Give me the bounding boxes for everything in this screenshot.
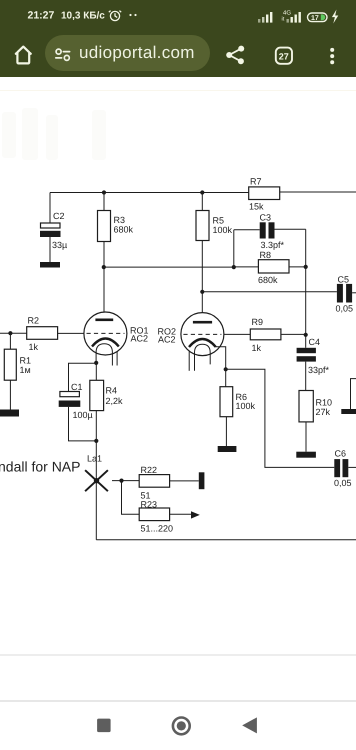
svg-text:R23: R23 xyxy=(141,500,158,510)
capacitor C2 xyxy=(40,211,67,262)
resistor R7 xyxy=(249,177,280,212)
svg-text:C5: C5 xyxy=(338,275,350,285)
node dot top rail R3 xyxy=(102,190,106,194)
node dot R8 right xyxy=(304,265,308,269)
svg-text:La1: La1 xyxy=(87,454,102,464)
svg-text:C2: C2 xyxy=(53,211,65,221)
node dot cathode network bottom xyxy=(94,439,98,443)
faint page artifact line xyxy=(0,90,356,91)
bottom sheet strip xyxy=(0,654,356,702)
nav back triangle xyxy=(242,717,257,733)
wire C3 right leg xyxy=(305,229,307,267)
capacitor C3 xyxy=(234,213,306,251)
node dot R22 R23 tap xyxy=(119,479,123,483)
wire feedback vertical xyxy=(305,267,307,348)
svg-text:C6: C6 xyxy=(335,449,347,459)
battery 17% xyxy=(308,13,328,22)
svg-text:C3: C3 xyxy=(260,213,272,223)
svg-text:100µ: 100µ xyxy=(73,410,93,420)
capacitor C4 xyxy=(297,337,330,391)
svg-text:3.3pf*: 3.3pf* xyxy=(261,240,285,250)
menu kebab xyxy=(330,48,334,64)
wire C2 drop xyxy=(49,193,51,224)
svg-text:51...220: 51...220 xyxy=(141,524,174,534)
svg-text:R10: R10 xyxy=(316,398,333,408)
signal bars 1 xyxy=(258,12,272,23)
svg-text:C1: C1 xyxy=(71,382,83,392)
node dot C3 R8 left xyxy=(232,265,236,269)
ground bar below R1 xyxy=(0,410,19,417)
svg-text:AC2: AC2 xyxy=(131,334,149,344)
wire output to C5 xyxy=(202,291,337,293)
wire top rail right xyxy=(280,191,356,193)
svg-text:C4: C4 xyxy=(309,337,321,347)
svg-text:AC2: AC2 xyxy=(158,335,176,345)
resistor R1 xyxy=(4,333,31,409)
capacitor C6 xyxy=(334,449,356,489)
browser header bar xyxy=(0,0,356,77)
resistor R5 xyxy=(196,193,233,322)
wire top rail left xyxy=(50,192,249,194)
ground terminal below C2 xyxy=(40,262,60,268)
url pill xyxy=(45,35,210,71)
resistor R4 xyxy=(90,363,123,441)
wire cathode2 to C6 xyxy=(226,369,335,467)
svg-text:1k: 1k xyxy=(252,343,262,353)
svg-text:680k: 680k xyxy=(258,275,278,285)
svg-text:R3: R3 xyxy=(114,215,126,225)
node dot anode R3 xyxy=(102,265,106,269)
faint watermark ghost xyxy=(2,108,106,160)
charging bolt xyxy=(332,10,338,24)
site settings (tune) icon xyxy=(56,49,70,60)
android nav bar xyxy=(0,700,356,750)
two-dot notification xyxy=(129,14,131,16)
svg-text:33pf*: 33pf* xyxy=(308,365,330,375)
svg-text:100k: 100k xyxy=(236,401,256,411)
nav recents square xyxy=(97,719,111,733)
ground bar right edge xyxy=(341,409,356,414)
wire lamp to R22 xyxy=(112,480,139,482)
wire grid feed left xyxy=(0,332,27,334)
signal bars 2 xyxy=(287,12,301,23)
wire bottom rail xyxy=(96,539,356,541)
svg-text:R2: R2 xyxy=(28,316,40,326)
wire anode coupling xyxy=(104,266,234,268)
resistor R6 xyxy=(220,369,256,446)
svg-text:100k: 100k xyxy=(213,225,233,235)
lamp La1 xyxy=(85,454,108,492)
alarm clock icon xyxy=(109,11,121,21)
home button icon xyxy=(16,47,31,64)
node dot R9 right xyxy=(304,333,308,337)
node dot R1 tap xyxy=(8,331,12,335)
svg-text:R7: R7 xyxy=(250,177,262,187)
svg-text:15k: 15k xyxy=(249,202,264,212)
svg-text:33µ: 33µ xyxy=(52,240,67,250)
svg-text:R4: R4 xyxy=(106,386,118,396)
ground bar below R10 xyxy=(296,452,316,458)
wire down to lamp xyxy=(95,441,97,540)
svg-text:R1: R1 xyxy=(20,356,32,366)
ground bar below R6 xyxy=(218,446,237,452)
node dot output xyxy=(200,290,204,294)
svg-text:0,05: 0,05 xyxy=(336,304,354,314)
svg-text:1k: 1k xyxy=(29,342,39,352)
svg-text:R9: R9 xyxy=(252,317,264,327)
resistor R8 xyxy=(234,250,306,285)
wire grid2 to R9 xyxy=(224,333,250,335)
node dot cathode2 xyxy=(224,367,228,371)
svg-text:R8: R8 xyxy=(260,250,272,260)
resistor R22 xyxy=(139,465,199,501)
capacitor C1 xyxy=(59,363,97,441)
wire C3 left leg xyxy=(233,230,235,267)
capacitor C5 xyxy=(336,275,356,314)
svg-text:27k: 27k xyxy=(316,407,331,417)
svg-text:680k: 680k xyxy=(114,225,134,235)
resistor R2 xyxy=(27,316,84,353)
triode tube RO2 xyxy=(181,313,226,371)
resistor R9 xyxy=(250,317,305,353)
node dot top rail R5 xyxy=(200,190,204,194)
share icon xyxy=(226,46,244,65)
svg-text:1м: 1м xyxy=(20,365,31,375)
svg-text:0,05: 0,05 xyxy=(334,478,352,488)
resistor R10 xyxy=(299,391,332,452)
terminal bar R22 xyxy=(199,472,205,489)
resistor R3 xyxy=(98,193,134,319)
svg-text:ndall for NAP: ndall for NAP xyxy=(0,459,80,475)
node dot cathode1 xyxy=(94,361,98,365)
tube labels RO1 RO2 xyxy=(130,326,176,345)
resistor R23 variable xyxy=(122,481,200,534)
nav home circle xyxy=(173,718,190,735)
svg-text:R22: R22 xyxy=(141,465,158,475)
triode tube RO1 xyxy=(84,312,127,366)
tab counter box xyxy=(276,48,292,64)
wire right edge stub xyxy=(351,379,356,409)
svg-text:R5: R5 xyxy=(213,216,225,226)
svg-text:2,2k: 2,2k xyxy=(106,396,124,406)
